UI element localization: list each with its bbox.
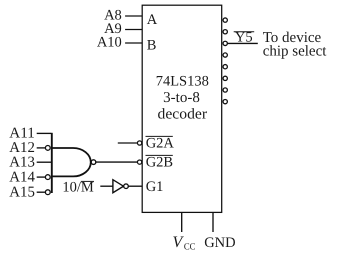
wire A10 to pin B xyxy=(125,42,142,44)
wire A9 xyxy=(125,29,142,31)
decoder U1 74LS138 outline xyxy=(142,5,222,212)
wire A13 xyxy=(37,161,52,163)
wire A8 to pin A xyxy=(125,15,142,17)
svg-text:G2B: G2B xyxy=(146,155,173,171)
wire 10/M to inverter xyxy=(100,185,113,187)
wire Vcc xyxy=(181,212,183,232)
wire inverter to G1 xyxy=(128,185,142,187)
svg-text:A15: A15 xyxy=(9,184,35,200)
bubble output Y4 xyxy=(223,65,227,69)
wire A15 xyxy=(37,191,46,193)
wire A12 xyxy=(37,147,46,149)
wire Y5 output xyxy=(227,42,257,44)
bubble pin G2B xyxy=(137,160,141,164)
overbar G2A xyxy=(146,135,173,137)
overbar Y5 xyxy=(234,31,255,33)
svg-text:B: B xyxy=(147,37,157,53)
svg-text:GND: GND xyxy=(204,235,235,251)
bubble output Y7 xyxy=(223,100,227,104)
NAND G3 body xyxy=(52,148,91,176)
svg-text:decoder: decoder xyxy=(158,106,208,122)
bubble inverter output xyxy=(124,184,129,189)
bubble output Y6 xyxy=(223,88,227,92)
bubble NAND output xyxy=(91,160,96,165)
wire GND xyxy=(212,212,214,232)
wire A14 xyxy=(37,176,46,178)
overbar M xyxy=(81,180,94,182)
inverter U2 triangle xyxy=(113,180,124,193)
svg-text:G1: G1 xyxy=(146,179,164,195)
bubble output Y5 xyxy=(223,76,227,80)
bubble output Y1 xyxy=(223,30,227,34)
bubble output Y0 xyxy=(223,18,227,22)
bubble NAND input A15 xyxy=(45,190,50,195)
svg-text:A13: A13 xyxy=(9,154,35,170)
svg-text:CC: CC xyxy=(184,242,196,252)
svg-text:chip select: chip select xyxy=(263,44,328,60)
bubble NAND input A14 xyxy=(45,175,50,180)
svg-text:A14: A14 xyxy=(9,169,35,185)
NAND G3 input bar xyxy=(51,133,53,193)
bubble output Y2 xyxy=(223,41,227,45)
wire G2A stub xyxy=(118,142,138,144)
svg-text:A: A xyxy=(147,12,158,28)
wire A11 xyxy=(37,132,52,134)
bubble pin G2A xyxy=(137,141,141,145)
svg-text:74LS138: 74LS138 xyxy=(156,73,209,89)
wire NAND output to G2B xyxy=(96,161,137,163)
bubble NAND input A12 xyxy=(45,146,50,151)
svg-text:G2A: G2A xyxy=(146,136,175,152)
overbar G2B xyxy=(146,154,173,156)
svg-text:3-to-8: 3-to-8 xyxy=(163,90,200,106)
svg-text:A10: A10 xyxy=(97,35,122,51)
bubble output Y3 xyxy=(223,53,227,57)
